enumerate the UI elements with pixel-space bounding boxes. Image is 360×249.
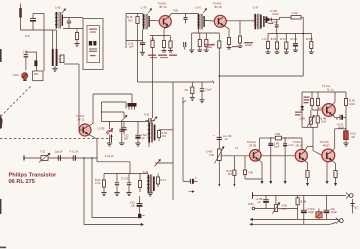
ground under L8 xyxy=(52,68,57,71)
resistor R6 below Q3 xyxy=(227,38,230,48)
ground under R7 xyxy=(238,46,243,48)
svg-text:1KΩ: 1KΩ xyxy=(321,120,326,124)
wire det to bias bus xyxy=(276,27,278,34)
capacitor C18 on feed xyxy=(217,137,222,139)
resistor R11 xyxy=(266,34,269,53)
capacitor C6 osc xyxy=(121,121,126,134)
resistor R9 xyxy=(205,33,208,50)
ferrite antenna coil L8 xyxy=(52,30,64,66)
resistor R16 xyxy=(316,92,319,110)
wire volume feed vertical xyxy=(218,76,220,149)
wire Q2 bias rail xyxy=(150,35,170,37)
wire bus A vertical xyxy=(83,158,85,225)
wire Q2 emitter xyxy=(164,25,168,35)
wire Q5 collector xyxy=(258,138,275,151)
wire C3 top link xyxy=(26,51,37,53)
capacitor C8 padder xyxy=(146,118,156,124)
antenna rod A1 xyxy=(19,4,22,31)
wire bottom rail 1 xyxy=(253,192,347,198)
svg-text:30µF: 30µF xyxy=(331,210,337,214)
svg-text:A7µF: A7µF xyxy=(272,20,279,24)
variable resistor R17 xyxy=(307,110,315,127)
transistor Q4 TO42 xyxy=(322,104,335,117)
variable capacitor VC1 red xyxy=(22,73,28,81)
wire bottom rail 3 xyxy=(250,223,336,226)
padder capacitor C5 xyxy=(34,52,37,71)
ground under R13 xyxy=(284,52,289,54)
svg-text:5.47: 5.47 xyxy=(253,6,259,10)
svg-text:1.2: 1.2 xyxy=(235,146,239,150)
wire L8 to Q1 base xyxy=(64,63,79,65)
jack J1 earphone xyxy=(346,193,353,199)
resistor R24 xyxy=(102,174,105,193)
svg-text:7.4B: 7.4B xyxy=(173,9,179,13)
resistor R21 horizontal xyxy=(275,136,302,140)
transformer L1 antenna coil xyxy=(55,12,63,29)
wire L1 to module box top xyxy=(63,17,83,19)
svg-text:1µ0 µF: 1µ0 µF xyxy=(55,150,64,154)
wire bias bus xyxy=(268,33,311,35)
svg-text:3K3: 3K3 xyxy=(128,18,133,22)
jack J2 supply xyxy=(336,218,343,224)
svg-text:06 RL 275: 06 RL 275 xyxy=(9,179,35,185)
svg-text:B.43: B.43 xyxy=(271,37,277,41)
svg-text:OA79: OA79 xyxy=(272,12,279,16)
wire emitter drop xyxy=(152,48,154,119)
svg-text:•P1: •P1 xyxy=(283,207,288,211)
svg-text:30µF: 30µF xyxy=(274,145,280,149)
transformer L6 xyxy=(148,123,156,143)
wire bias rail mid xyxy=(138,81,215,83)
ground under R33 xyxy=(168,51,173,53)
svg-text:4.7K: 4.7K xyxy=(95,181,101,185)
resistor R1 below box xyxy=(75,29,78,44)
svg-text:5.40: 5.40 xyxy=(55,6,61,10)
wire bias stub b3 xyxy=(326,162,328,183)
capacitor C1 trimmer xyxy=(30,14,36,31)
wire AGC drop xyxy=(239,21,241,36)
svg-text:5.4B: 5.4B xyxy=(300,117,306,121)
svg-text:2µF: 2µF xyxy=(129,44,134,48)
ground under C22 xyxy=(200,100,205,103)
arrow R27 down xyxy=(307,183,309,185)
capacitor C2 coupling xyxy=(67,18,71,29)
resistor R10 horizontal xyxy=(291,16,303,19)
svg-text:1.40: 1.40 xyxy=(141,6,147,10)
wire Q5 emitter arrow xyxy=(261,181,263,183)
wire detector to R10 xyxy=(277,17,291,19)
wire pot to Q5 base xyxy=(221,155,249,157)
varistor R31 red xyxy=(316,209,322,220)
wire L8 stem xyxy=(54,66,56,68)
svg-text:5.43k: 5.43k xyxy=(206,150,213,154)
capacitor C10 in row xyxy=(73,155,75,161)
resistor R3 xyxy=(136,14,139,83)
resistor R13 xyxy=(285,34,288,53)
resistor R7 xyxy=(238,36,241,46)
wire L1 to module box bottom xyxy=(63,28,83,30)
svg-text:B.4B: B.4B xyxy=(301,200,307,204)
wire audio top cross xyxy=(102,121,149,123)
node dot bias bus xyxy=(302,33,304,35)
svg-text:TO42•a: TO42•a xyxy=(293,140,303,144)
arrow R20 down xyxy=(233,184,235,186)
svg-text:5.42: 5.42 xyxy=(144,113,150,117)
svg-text:AF 11: AF 11 xyxy=(78,118,85,122)
wire audio comp rail xyxy=(104,173,148,175)
electrolytic C19 xyxy=(268,138,273,181)
wire Q6 base feed xyxy=(261,155,296,157)
ground under C25 xyxy=(114,193,119,196)
resistor R4 xyxy=(151,36,154,48)
electrolytic C28 xyxy=(263,196,269,209)
capacitor C12 bypass xyxy=(140,29,145,52)
svg-text:5.41: 5.41 xyxy=(196,6,202,10)
svg-text:3Ω: 3Ω xyxy=(185,88,188,92)
svg-text:µF: µF xyxy=(258,200,261,204)
wire AM row start tick xyxy=(23,156,25,161)
svg-text:B2: B2 xyxy=(355,206,359,210)
resistor R15 xyxy=(310,92,313,110)
wire IFT3 to detector xyxy=(265,19,268,21)
node dots bus xyxy=(83,157,92,158)
wire T3 left vertical xyxy=(301,92,303,127)
ground under C12 xyxy=(140,52,145,55)
svg-text:BF 19: BF 19 xyxy=(160,5,167,9)
wire audio rail horizontal xyxy=(219,75,303,77)
wire IF input rail xyxy=(126,14,143,49)
potentiometer P1 volume xyxy=(215,147,225,164)
wire Q5 emitter xyxy=(258,159,262,181)
wire Q1 emitter xyxy=(88,134,97,158)
node dot C19 xyxy=(270,137,271,138)
svg-text:µF: µF xyxy=(225,137,228,141)
node dot C20 xyxy=(284,137,285,138)
speaker LS1 xyxy=(344,131,349,140)
resistor R27 Q6 emitter xyxy=(306,171,309,184)
transistor Q1 mixer TO421 xyxy=(79,124,91,136)
electrolytic C16 xyxy=(335,115,346,120)
svg-text:1.67B: 1.67B xyxy=(97,127,104,131)
resistor R18 xyxy=(316,110,319,127)
resistor R33 xyxy=(169,36,172,51)
electrolytic C21 feedback xyxy=(190,179,197,184)
resistor R2 trimmer in row xyxy=(39,153,50,162)
diode D3 xyxy=(300,106,304,110)
wire Q3 collector to IFT3 xyxy=(226,20,255,22)
ground under L7 xyxy=(148,193,153,196)
svg-text:10B •: 10B • xyxy=(248,202,254,206)
svg-text:TO43•a: TO43•a xyxy=(247,140,257,144)
resistor R26 xyxy=(156,174,159,188)
electrolytic C27 output coupling xyxy=(137,196,143,214)
ground under R14 xyxy=(309,52,314,54)
ground under C15 xyxy=(293,50,298,52)
capacitor C22 on rail xyxy=(200,82,204,100)
wire osc box top xyxy=(102,102,127,109)
switch S1 contact xyxy=(252,207,298,210)
ground under R11 xyxy=(266,52,271,54)
svg-text:1.40c: 1.40c xyxy=(13,73,20,77)
diode D2 detector xyxy=(268,18,277,22)
capacitor C15 electrolytic xyxy=(293,34,298,51)
wire Q4 base xyxy=(312,109,322,111)
svg-text:6Ω: 6Ω xyxy=(352,135,355,139)
battery B2 xyxy=(350,199,354,214)
svg-text:10K2: 10K2 xyxy=(349,102,356,106)
wire L4 bottom stub xyxy=(192,29,220,33)
transistor Q3 TO433 xyxy=(214,15,226,27)
capacitor C31 xyxy=(184,42,186,50)
svg-text:7.0B: 7.0B xyxy=(275,132,281,136)
ground under C24 xyxy=(135,143,140,146)
svg-text:Philips Transistor: Philips Transistor xyxy=(9,172,58,178)
wire L6 right rail link xyxy=(159,129,173,131)
tuning arrow on L1 xyxy=(62,9,66,14)
connector blob bus B xyxy=(138,214,145,218)
module internal component blobs xyxy=(89,41,97,56)
wire L2 bottom link xyxy=(102,102,125,122)
label cluster below Q2 xyxy=(148,55,177,59)
resistor R29 xyxy=(296,196,299,220)
svg-text:TO433: TO433 xyxy=(213,2,222,6)
wire supply drop to Q6 xyxy=(301,138,303,150)
transformer L3 IFT1 xyxy=(142,14,150,29)
L2 tuning arrow xyxy=(121,115,127,121)
svg-text:T.02: T.02 xyxy=(40,150,46,154)
edge artifact left 1 xyxy=(0,49,2,62)
transformer L7 driver xyxy=(147,175,155,194)
wire Q1 collector link xyxy=(89,124,94,127)
ground under R1 xyxy=(75,44,80,47)
node dot rail left xyxy=(219,75,221,77)
tuning gang box VC2 xyxy=(33,71,43,81)
wire Q3 emitter xyxy=(223,25,229,37)
wire AVC vertical xyxy=(302,17,304,76)
module text rows xyxy=(89,29,97,33)
wire IFT2 return xyxy=(191,33,193,50)
svg-text:4.7µ 1K: 4.7µ 1K xyxy=(70,150,79,154)
potentiometer P2 xyxy=(272,196,280,214)
edge artifact left 2 xyxy=(0,114,3,129)
resistor R8 cluster below L4 xyxy=(198,33,201,50)
resistor R12 xyxy=(275,34,278,53)
wire T3 bottom rail xyxy=(302,126,318,128)
arrow R28 down xyxy=(335,183,337,185)
svg-text:2B 1B: 2B 1B xyxy=(296,144,303,148)
svg-text:1.5µF: 1.5µF xyxy=(205,88,212,92)
wire Q4 collector xyxy=(332,92,335,106)
svg-text:4K7: 4K7 xyxy=(228,172,233,176)
ground under R8 xyxy=(197,50,202,52)
wire row to audio drop xyxy=(97,158,130,174)
svg-text:2B 3B: 2B 3B xyxy=(249,144,256,148)
svg-text:B.7C: B.7C xyxy=(280,37,286,41)
ground under R6 xyxy=(227,48,232,50)
wire L3 to Q2 base xyxy=(150,20,160,22)
detector input cluster xyxy=(265,17,273,25)
label D3 xyxy=(295,112,302,116)
edge artifact bottom xyxy=(0,247,6,249)
wire L6 bottom xyxy=(148,143,150,148)
svg-text:1.47µ: 1.47µ xyxy=(292,11,299,15)
capacitor C3 xyxy=(24,52,29,70)
variable capacitor VC3 red xyxy=(107,122,113,144)
wire T3 top rail xyxy=(302,91,346,93)
resistor R5 xyxy=(162,36,165,51)
trimmer branch arrow xyxy=(155,160,174,167)
wire feedback vertical xyxy=(183,97,190,181)
wire T4 collector riser xyxy=(92,94,94,124)
wire C13 link xyxy=(126,40,143,42)
wire bus B horizontal xyxy=(92,217,139,219)
wire Q7 collector xyxy=(332,129,347,152)
electrolytic C29 xyxy=(301,196,307,225)
wire antenna to coil xyxy=(21,29,57,31)
svg-text:B.47: B.47 xyxy=(161,178,167,182)
wire L4 to Q3 base xyxy=(205,20,215,23)
resistor R22 on rail xyxy=(191,82,194,97)
wire cap top to node xyxy=(33,14,44,72)
svg-text:TO124•: TO124• xyxy=(320,140,329,144)
electrolytic C20 xyxy=(283,138,287,181)
capacitor C23 xyxy=(119,122,124,144)
resistor R14 xyxy=(310,34,313,53)
wire Q4 emitter xyxy=(332,114,336,117)
wire bus B vertical xyxy=(91,158,93,218)
ground under R24 xyxy=(101,193,106,196)
svg-text:7.4B: 7.4B xyxy=(248,171,254,175)
capacitor C25 xyxy=(115,174,119,193)
wire Q7 emitter xyxy=(331,160,335,171)
electrolytic C30 xyxy=(324,196,330,220)
svg-text:1.61 µ2: 1.61 µ2 xyxy=(105,154,114,158)
module box U1 inner xyxy=(87,26,100,63)
ground under C23 xyxy=(119,143,124,145)
capacitor C11 neutralizing xyxy=(184,14,188,24)
svg-text:B.076: B.076 xyxy=(306,37,313,41)
svg-text:1.4B: 1.4B xyxy=(23,50,29,54)
transistor Q6 output TO42 xyxy=(295,149,307,161)
wire Q6 collector coupling xyxy=(304,127,322,155)
arrow pot down xyxy=(218,184,220,186)
arrow C19 down xyxy=(270,181,272,183)
capacitor C14 det filter xyxy=(275,20,279,27)
edge artifact left 3 xyxy=(0,199,1,214)
ground under R5 xyxy=(162,51,167,53)
svg-text:4L.1µ: 4L.1µ xyxy=(327,87,334,91)
electrolytic C24 xyxy=(135,122,140,144)
wire mixer top rail xyxy=(93,93,132,95)
capacitor C9 in row xyxy=(58,155,60,161)
resistor R25 xyxy=(138,174,141,193)
transistor Q5 driver TO43 xyxy=(250,150,262,162)
ground under C26 xyxy=(126,193,131,196)
ground under R22 xyxy=(190,97,195,100)
dashed link end arrow xyxy=(110,135,112,143)
svg-text:Th.2•a: Th.2•a xyxy=(322,84,331,88)
resistor R23 xyxy=(157,130,160,141)
wire audio vert rail xyxy=(172,82,174,200)
resistor R32 xyxy=(243,156,262,179)
label cluster 1.41 B13 xyxy=(304,97,310,104)
module box U1 outer xyxy=(83,19,103,70)
L4 tuning arrow xyxy=(203,9,206,13)
arrow C20 down xyxy=(284,181,286,183)
wire Q1 base feed xyxy=(79,64,80,129)
label cluster below Q3 xyxy=(205,42,253,48)
wire Q6 emitter xyxy=(304,160,308,171)
ground IFT2 return xyxy=(189,50,194,53)
svg-text:30µF: 30µF xyxy=(308,210,314,214)
resistor R34 xyxy=(218,33,221,76)
svg-text:µF: µF xyxy=(142,136,145,140)
L3 tuning arrow xyxy=(148,9,151,13)
transformer L4 IFT2 xyxy=(197,14,205,29)
wire pot bottom xyxy=(218,161,220,187)
svg-text:TO421: TO421 xyxy=(76,114,85,118)
ground under R9 xyxy=(204,50,209,52)
svg-text:BF 18: BF 18 xyxy=(215,5,222,9)
svg-text:TO433: TO433 xyxy=(158,2,167,6)
ground under speaker xyxy=(343,143,348,146)
svg-text:15K: 15K xyxy=(124,137,129,141)
C8 trim arrow xyxy=(153,117,158,122)
transistor Q7 output TO124 xyxy=(322,149,335,162)
resistor R28 Q7 emitter xyxy=(334,171,337,184)
svg-text:TO.02: TO.02 xyxy=(121,177,129,181)
svg-text:1.7µ: 1.7µ xyxy=(262,37,268,41)
capacitor C26 xyxy=(127,174,131,193)
dashed tuning link horizontal xyxy=(0,138,111,140)
arrow bus A end xyxy=(141,224,144,226)
wire bottom rail 2 xyxy=(250,218,339,220)
svg-text:1C2: 1C2 xyxy=(25,34,30,38)
wire bus A horizontal xyxy=(84,224,141,226)
wire speaker to ground xyxy=(345,140,347,143)
wire AM row xyxy=(24,157,97,159)
transistor Q2 TO433 xyxy=(159,16,171,28)
dashed tuning link diagonal xyxy=(0,87,31,118)
arrow C21 out xyxy=(189,191,195,193)
oscillator coil L2 xyxy=(128,94,137,110)
ground under VC3 xyxy=(107,143,112,146)
svg-text:4B B7: 4B B7 xyxy=(323,144,331,148)
svg-text:C2 6F: C2 6F xyxy=(290,37,297,41)
svg-text:47Ω: 47Ω xyxy=(209,153,214,157)
resistor R19 right xyxy=(344,92,347,131)
ground under R12 xyxy=(275,52,280,54)
wire Q2 collector to IFT2 xyxy=(168,14,199,18)
resistor R20 below pot xyxy=(233,156,236,186)
transformer L5 IFT3 xyxy=(254,14,265,29)
svg-text:2K2: 2K2 xyxy=(162,134,167,138)
